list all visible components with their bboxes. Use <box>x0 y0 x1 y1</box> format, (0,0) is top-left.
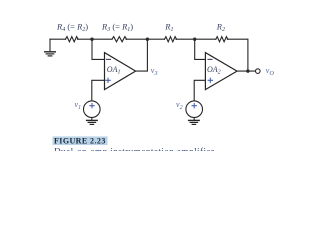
svg-text:R4 (= R2): R4 (= R2) <box>56 21 88 33</box>
figure caption highlight <box>53 136 108 145</box>
source V1 polarity plus <box>89 103 94 108</box>
resistor R4 <box>66 37 79 42</box>
wire: R2 to output node (down) <box>227 39 248 71</box>
source V2 polarity plus <box>192 103 197 108</box>
ground (below V2) <box>189 120 200 124</box>
op-amp pin sign: OA2 plus <box>208 78 213 83</box>
svg-text:R1: R1 <box>164 21 173 33</box>
svg-text:v3: v3 <box>151 66 159 77</box>
wire: v1 to ground stub <box>91 118 93 120</box>
op-amp U2 (OA2) triangle <box>205 53 237 90</box>
wire: OA1 noninverting input to v1 <box>92 80 105 101</box>
resistor R1 <box>165 37 177 42</box>
source V1 circle <box>84 101 101 118</box>
source V2 circle <box>186 101 203 118</box>
wire: R1 to node C <box>176 38 195 40</box>
junction node B (v3) <box>146 38 149 41</box>
ground (below V1) <box>87 120 98 124</box>
op-amp pin sign: OA2 minus <box>207 58 212 60</box>
wire: OA2 output to terminal vO <box>237 70 256 72</box>
wire: ground corner to R4 <box>50 38 66 40</box>
junction node at output <box>246 69 249 72</box>
resistor R3 <box>112 37 127 42</box>
ground (left, at R4 input) <box>45 39 56 56</box>
svg-text:FIGURE 2.23: FIGURE 2.23 <box>54 136 106 145</box>
svg-text:vO: vO <box>266 66 275 77</box>
op-amp pin sign: OA1 minus <box>106 58 111 60</box>
svg-text:R3 (= R1): R3 (= R1) <box>101 21 133 33</box>
svg-text:v1: v1 <box>75 100 82 111</box>
wire: node A to R3 <box>92 38 112 40</box>
wire: v2 to ground stub <box>193 118 195 120</box>
wire: R4 to node A <box>78 38 93 40</box>
wire: node A down to OA1 inverting input <box>92 39 105 59</box>
svg-text:Dual-op-amp instrumentation am: Dual-op-amp instrumentation amplifier. <box>54 147 217 151</box>
terminal vO open circle <box>255 69 260 74</box>
op-amp U1 (OA1) triangle <box>105 53 136 90</box>
junction node A <box>90 38 93 41</box>
wire: R3 to node B <box>126 38 147 40</box>
wire: node B to R1 <box>147 38 164 40</box>
resistor R2 <box>216 37 228 42</box>
wire: OA2 noninverting input to v2 <box>194 80 205 101</box>
wire: node C to R2 <box>195 38 216 40</box>
op-amp pin sign: OA1 plus <box>105 78 110 83</box>
svg-text:R2: R2 <box>216 21 225 33</box>
svg-text:v2: v2 <box>176 100 183 111</box>
junction node C <box>193 38 196 41</box>
wire: OA1 output to node v3 riser <box>136 39 148 71</box>
wire: node C down to OA2 inverting input <box>195 39 206 59</box>
